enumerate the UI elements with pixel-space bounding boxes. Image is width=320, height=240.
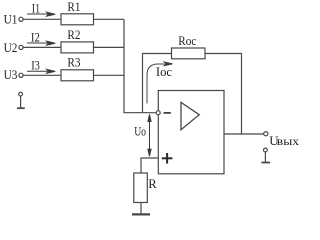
svg-text:U2: U2 <box>4 40 18 55</box>
svg-text:вых: вых <box>277 136 299 148</box>
svg-text:R: R <box>148 176 157 191</box>
svg-text:I1: I1 <box>32 1 40 16</box>
svg-text:Uo: Uo <box>134 124 146 139</box>
svg-text:Ioc: Ioc <box>156 64 172 79</box>
svg-text:R3: R3 <box>67 55 80 70</box>
svg-text:R2: R2 <box>67 27 80 42</box>
svg-text:U3: U3 <box>4 67 18 82</box>
svg-text:Roc: Roc <box>178 33 196 48</box>
svg-text:I2: I2 <box>31 30 40 45</box>
svg-text:R1: R1 <box>67 0 80 14</box>
svg-text:I3: I3 <box>31 57 40 72</box>
svg-text:U1: U1 <box>4 11 18 26</box>
